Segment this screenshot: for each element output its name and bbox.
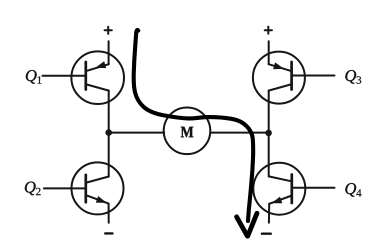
- transistor Q4 (NPN): [253, 163, 305, 215]
- transistor Q2 (NPN): [72, 162, 124, 214]
- wire Q2 emitter down: [108, 204, 110, 223]
- wire Q4 base lead: [292, 187, 335, 189]
- wire Q1 base lead: [43, 75, 86, 77]
- wire node A to motor: [109, 132, 165, 134]
- wire node A to Q2 collector: [108, 133, 110, 177]
- minus terminal right: [262, 232, 271, 234]
- wire from + to Q1 emitter: [108, 41, 110, 64]
- wire Q3 base lead: [292, 75, 335, 77]
- wire Q3 collector to node B: [268, 91, 270, 133]
- label Q4: [345, 183, 356, 197]
- wire node B to Q4 collector: [268, 133, 270, 177]
- plus terminal left: [105, 27, 112, 34]
- wire Q1 collector to node A: [108, 91, 110, 133]
- transistor Q1 (PNP): [71, 51, 124, 104]
- node A junction dot: [105, 129, 112, 136]
- node B junction dot: [265, 130, 272, 137]
- wire Q2 base lead: [44, 187, 86, 189]
- wire motor to node B: [210, 132, 268, 134]
- label Q1: [26, 70, 37, 84]
- transistor Q3 (PNP): [253, 52, 305, 104]
- label Q3: [345, 70, 356, 84]
- wire from + to Q3 emitter: [268, 41, 270, 64]
- wire Q4 emitter down: [268, 204, 270, 223]
- label Q2: [25, 182, 36, 196]
- freehand current-flow arrow shaft: [134, 30, 254, 221]
- minus terminal left: [105, 232, 112, 234]
- motor M: [164, 108, 211, 155]
- freehand arrowhead: [237, 213, 257, 236]
- plus terminal right: [265, 27, 272, 34]
